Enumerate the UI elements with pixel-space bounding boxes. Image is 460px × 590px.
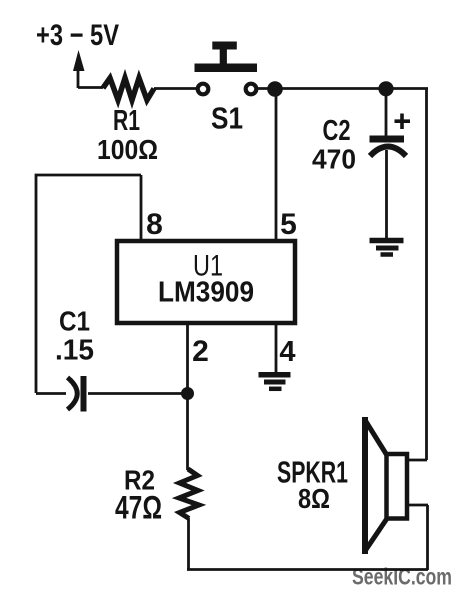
svg-text:47Ω: 47Ω xyxy=(115,490,162,526)
svg-text:8: 8 xyxy=(146,208,163,241)
svg-text:C2: C2 xyxy=(323,115,351,147)
svg-text:LM3909: LM3909 xyxy=(158,277,254,309)
svg-text:C1: C1 xyxy=(59,306,90,337)
svg-text:4: 4 xyxy=(279,336,295,368)
svg-text:S1: S1 xyxy=(211,101,243,136)
svg-text:R1: R1 xyxy=(113,105,140,137)
svg-text:2: 2 xyxy=(192,335,209,368)
svg-text:5: 5 xyxy=(280,208,297,241)
svg-text:470: 470 xyxy=(312,144,356,175)
svg-text:.15: .15 xyxy=(55,335,94,367)
svg-text:+3 − 5V: +3 − 5V xyxy=(36,19,119,52)
svg-text:8Ω: 8Ω xyxy=(298,483,330,514)
svg-text:100Ω: 100Ω xyxy=(97,134,158,165)
svg-text:SeekIC.com: SeekIC.com xyxy=(352,564,452,590)
